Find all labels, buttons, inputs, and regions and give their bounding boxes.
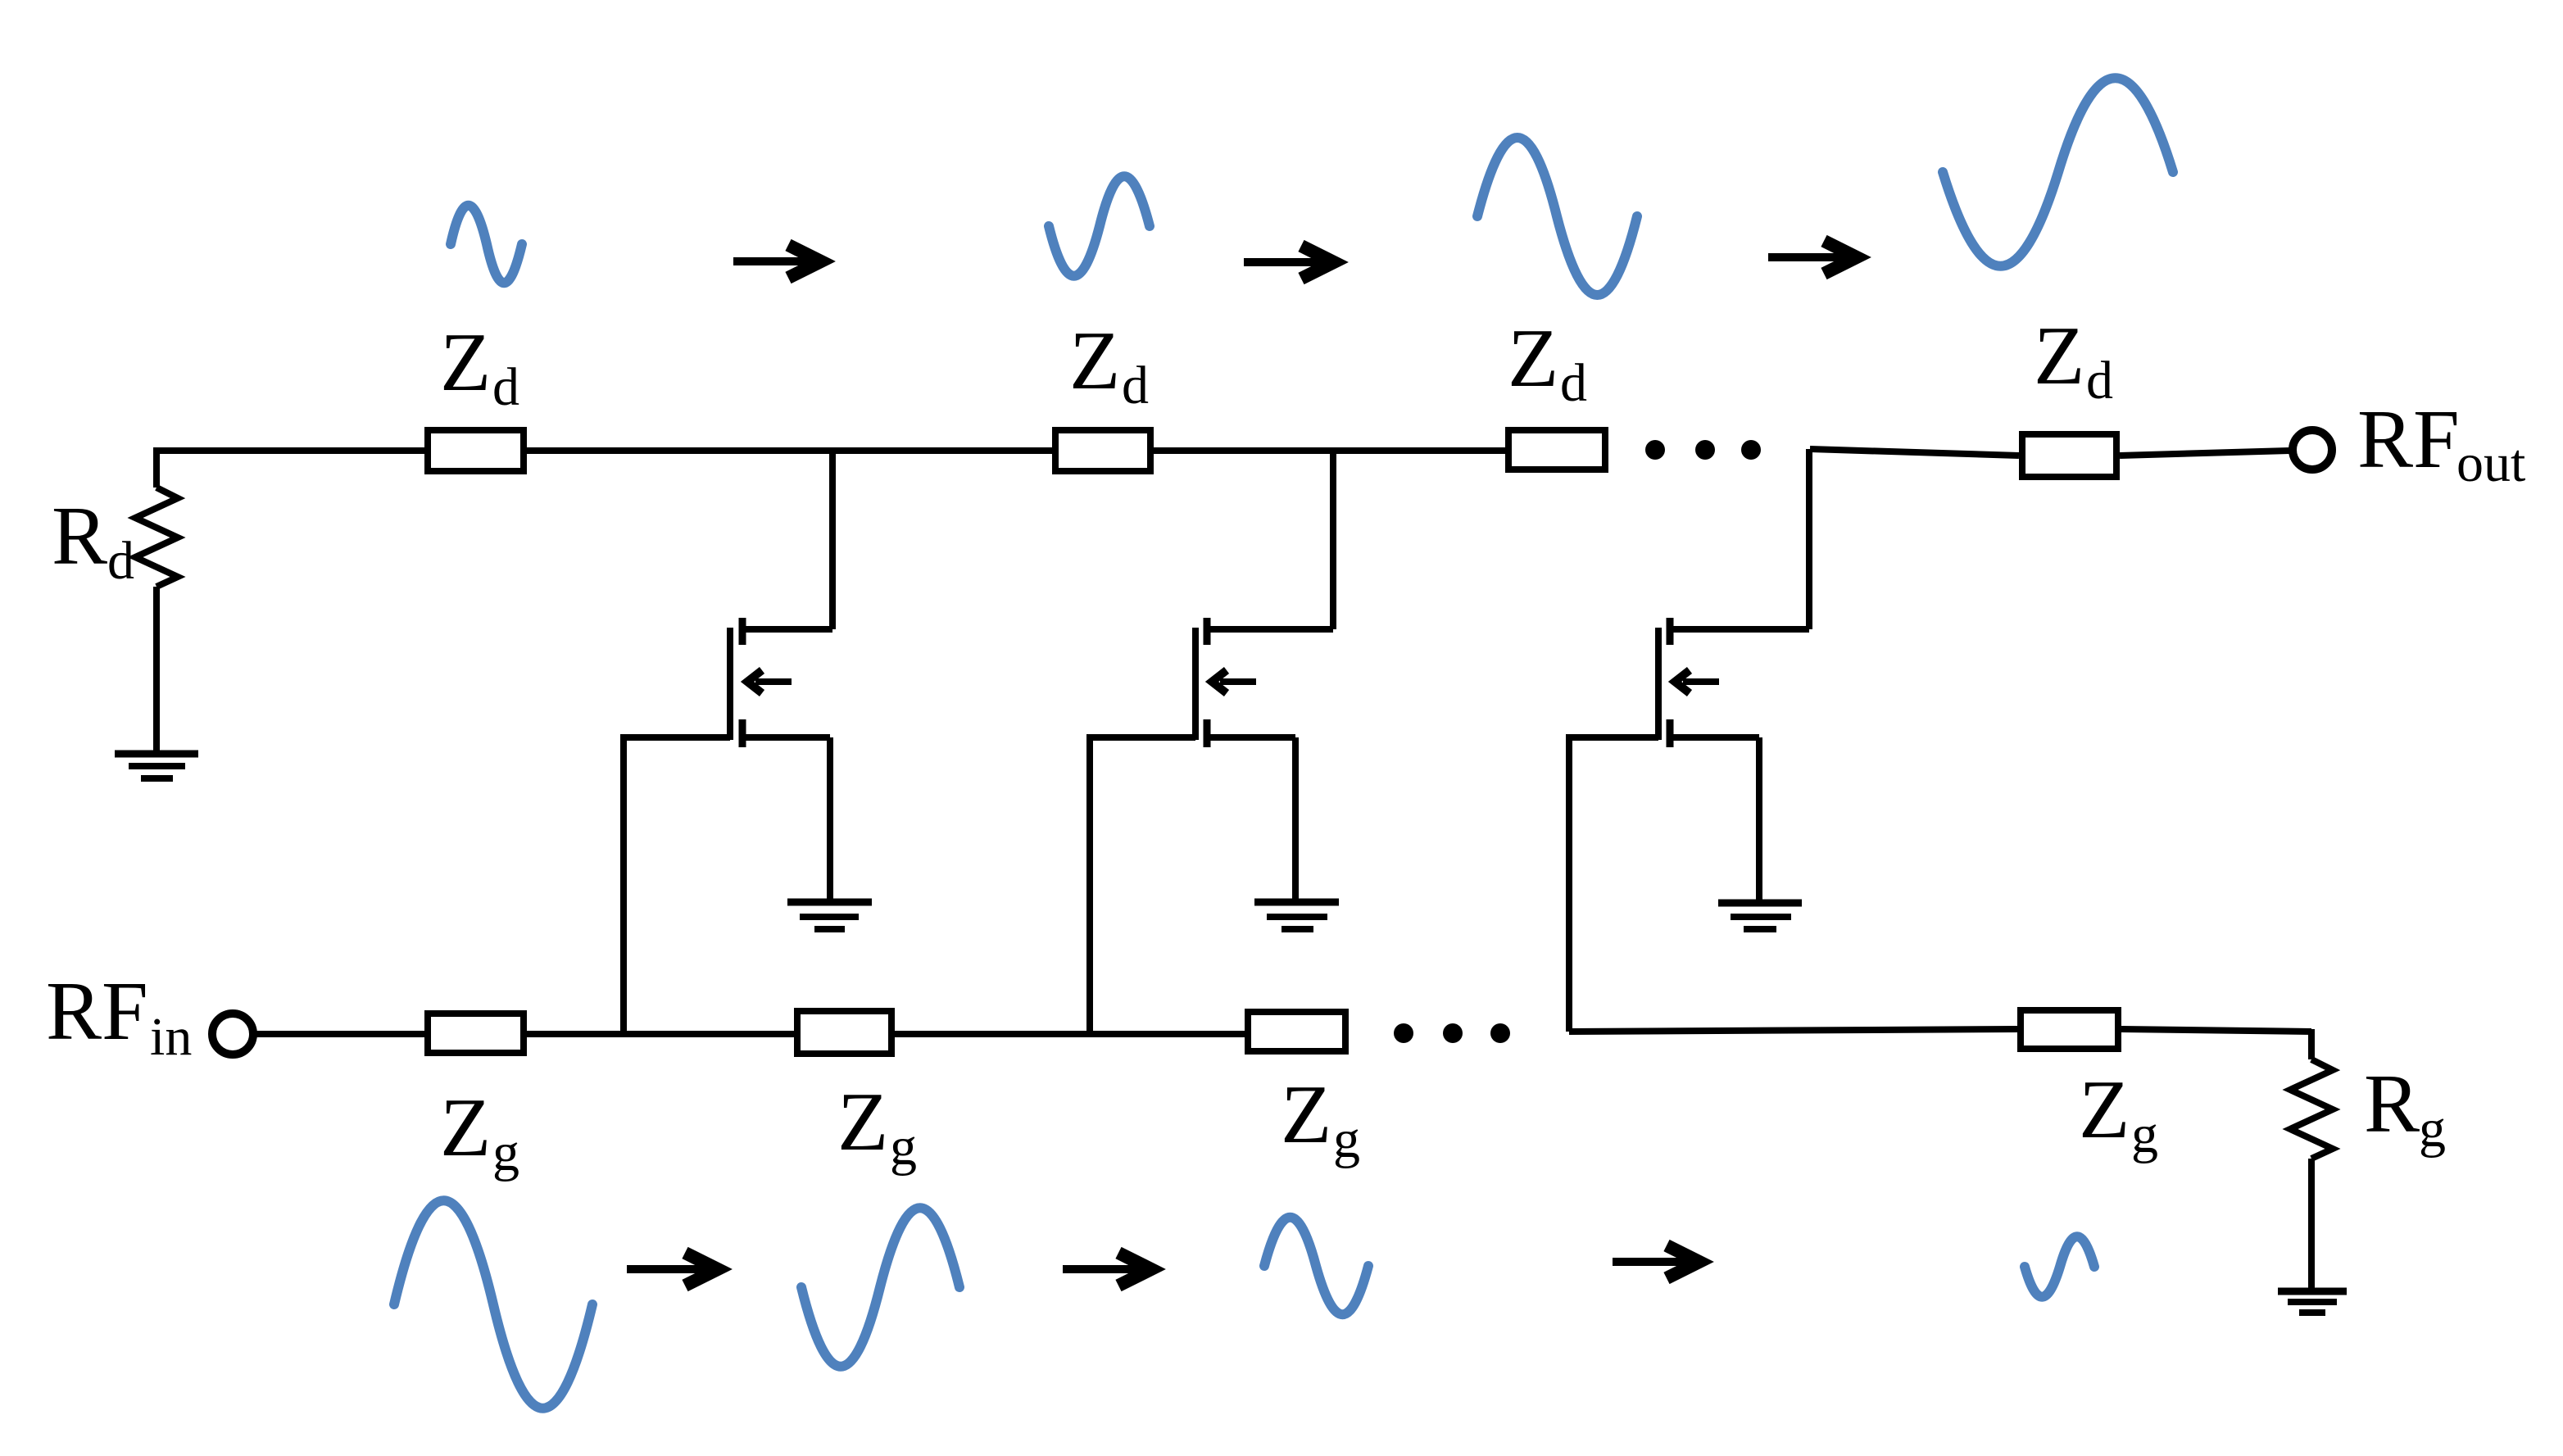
svg-text:d: d — [492, 357, 519, 417]
svg-text:g: g — [1333, 1109, 1360, 1169]
svg-text:R: R — [2364, 1058, 2420, 1150]
svg-text:Z: Z — [440, 316, 491, 409]
svg-text:g: g — [2419, 1099, 2446, 1159]
svg-text:d: d — [2086, 351, 2113, 410]
svg-text:d: d — [1122, 356, 1149, 415]
svg-text:Z: Z — [1508, 312, 1558, 405]
svg-text:Z: Z — [440, 1082, 491, 1174]
svg-text:g: g — [890, 1117, 917, 1177]
svg-text:Z: Z — [2079, 1064, 2130, 1156]
svg-text:Z: Z — [2034, 310, 2084, 402]
svg-text:R: R — [52, 490, 107, 583]
svg-text:out: out — [2456, 433, 2525, 493]
svg-text:g: g — [2131, 1104, 2158, 1164]
svg-text:RF: RF — [46, 965, 148, 1058]
svg-text:Z: Z — [1281, 1068, 1331, 1161]
svg-text:Z: Z — [837, 1076, 888, 1168]
svg-text:d: d — [107, 531, 134, 591]
svg-text:in: in — [150, 1007, 192, 1067]
svg-text:d: d — [1560, 353, 1587, 413]
svg-text:Z: Z — [1069, 315, 1120, 407]
svg-text:RF: RF — [2357, 393, 2460, 486]
svg-text:g: g — [492, 1123, 519, 1182]
